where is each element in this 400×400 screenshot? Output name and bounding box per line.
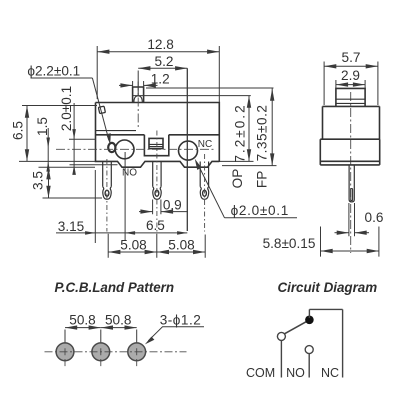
- left pin foot: [103, 187, 112, 200]
- pcb leader 3-phi1.2: [148, 327, 204, 341]
- left extension line y164.7: [70, 164, 118, 166]
- side view button: [336, 88, 365, 106]
- dim 12.8 line: [97, 51, 219, 53]
- COM terminal line: [280, 340, 282, 377]
- dim 5.2 extension line: [137, 71, 139, 96]
- dim 2.9 extension lines: [336, 80, 365, 88]
- pcb dim 50.8 right line: [101, 327, 137, 329]
- phi2.2 leader arrowhead: [106, 133, 111, 145]
- svg-text:2.0±0.1: 2.0±0.1: [59, 86, 74, 131]
- left circle center extension down: [124, 152, 126, 240]
- svg-text:5.08: 5.08: [168, 238, 194, 253]
- left pin centerline: [106, 159, 108, 232]
- front view body outline: [96, 103, 220, 168]
- middle pin foot: [153, 187, 162, 200]
- dim 3.5 extension line bottom: [43, 197, 103, 199]
- svg-text:3.5: 3.5: [30, 171, 45, 190]
- top-left hook tab: [98, 106, 105, 113]
- dim 2.0 lower arrow: [72, 165, 76, 175]
- svg-text:0.9: 0.9: [163, 198, 182, 213]
- dim 2.0 vertical line: [73, 103, 75, 172]
- button vertical centerline: [137, 82, 139, 130]
- phi2.0 label underline: [225, 217, 298, 219]
- chain dim line 3.15 / 6.5: [56, 232, 187, 234]
- side view base lines: [320, 161, 379, 165]
- dim 5.08 right line: [157, 251, 205, 253]
- phi2.2 leader line: [92, 78, 109, 140]
- svg-text:P.C.B.Land Pattern: P.C.B.Land Pattern: [55, 280, 175, 295]
- dim 0.6 left arrow: [335, 232, 349, 234]
- dim 0.6 extension lines: [349, 203, 355, 236]
- top wire: [309, 308, 342, 310]
- svg-text:50.8: 50.8: [69, 312, 95, 327]
- svg-text:0.6: 0.6: [365, 210, 384, 225]
- dim 5.2 line: [138, 67, 187, 69]
- left pin hole: [105, 190, 109, 196]
- dim 1.2 right arrow: [144, 84, 158, 86]
- svg-text:OP: OP: [230, 169, 245, 189]
- svg-text:5.2: 5.2: [155, 54, 174, 69]
- side view vertical centerline: [350, 92, 352, 253]
- FP top extension line: [146, 87, 274, 89]
- NC terminal line: [342, 309, 344, 377]
- dot to top wire: [308, 309, 310, 318]
- NO terminal circle: [305, 346, 313, 354]
- body seam line left: [96, 134, 145, 136]
- internal lever line: [96, 130, 137, 132]
- side view upper body: [323, 106, 380, 139]
- left extension line bottom (y161.4): [19, 160, 96, 162]
- body seam notch: [144, 135, 168, 156]
- dim 5.7 extension lines: [324, 62, 378, 106]
- dim 1.2 left arrow: [119, 84, 133, 86]
- body seam line right: [169, 134, 220, 136]
- long extension line right: [186, 68, 188, 231]
- left extension line y139.3: [69, 138, 96, 140]
- left pin: [103, 162, 112, 187]
- dim 3.5 vertical line: [48, 167, 50, 198]
- horizontal centerline through holes: [56, 148, 215, 150]
- middle pin centerline: [156, 131, 158, 233]
- 6.5 left arrow: [125, 231, 135, 235]
- svg-text:5.8±0.15: 5.8±0.15: [263, 236, 316, 251]
- dim 6.5 left vertical line: [26, 106, 28, 162]
- svg-text:6.5: 6.5: [146, 218, 165, 233]
- button dome arc: [134, 96, 142, 103]
- OP dim line: [248, 96, 250, 162]
- svg-text:1.5: 1.5: [35, 117, 50, 136]
- phi2.0 leader line: [198, 164, 225, 218]
- svg-text:NO: NO: [122, 167, 137, 178]
- dim 0.9 left arrow: [139, 211, 153, 213]
- pad circle 2: [92, 343, 110, 361]
- dim 12.8 extension lines: [97, 46, 219, 102]
- pad circle 3: [128, 343, 146, 361]
- left mounting circle: [115, 140, 134, 159]
- svg-text:COM: COM: [246, 366, 275, 380]
- FP dim line: [271, 89, 273, 166]
- svg-text:1.2: 1.2: [151, 72, 170, 87]
- middle pin hole: [155, 190, 159, 196]
- dim 1.5 lower arrow: [46, 161, 50, 171]
- side view lower body: [320, 139, 379, 165]
- svg-text:7.2±0.2: 7.2±0.2: [233, 103, 248, 162]
- dim 5.7 line: [324, 65, 378, 67]
- OP bottom reference line: [220, 160, 254, 162]
- pcb dim extension lines: [65, 330, 137, 343]
- button outer rectangle: [133, 87, 144, 103]
- side view button collar lines: [336, 99, 365, 103]
- 3.15 outside arrow: [85, 231, 95, 235]
- svg-text:12.8: 12.8: [147, 37, 173, 52]
- pcb pad circles: [56, 343, 145, 361]
- side view pin: [349, 165, 354, 202]
- right pin centerline: [204, 154, 206, 232]
- dim 1.2 extension lines: [133, 81, 144, 87]
- switch lever: [285, 322, 306, 334]
- pcb pad vertical ticks: [65, 348, 137, 366]
- side view step line: [320, 138, 379, 140]
- right pin hole: [203, 190, 207, 196]
- pcb dim 50.8 left line: [65, 327, 101, 329]
- dim 5.8 extension lines: [321, 227, 379, 257]
- dim 5.8 line: [321, 250, 379, 252]
- pad circle 1: [56, 343, 74, 361]
- svg-text:7.35±0.2: 7.35±0.2: [255, 105, 270, 162]
- dim 2.0 upper arrow: [72, 129, 76, 139]
- OP top extension line: [133, 95, 251, 97]
- side view pin slot: [351, 189, 353, 201]
- middle terminal slot divider: [149, 144, 163, 146]
- right pin: [200, 162, 208, 187]
- right pin foot: [200, 187, 209, 200]
- small hole ellipse (phi 2.2): [108, 143, 115, 152]
- 6.5 right arrow: [177, 231, 187, 235]
- svg-text:NC: NC: [321, 366, 339, 380]
- svg-text:5.7: 5.7: [342, 50, 361, 65]
- svg-text:NO: NO: [286, 366, 305, 380]
- right mounting circle: [179, 141, 198, 160]
- svg-text:FP: FP: [255, 171, 270, 188]
- middle terminal slot rectangle: [149, 138, 163, 148]
- dim 0.9 extension lines: [153, 200, 161, 215]
- middle pin: [153, 162, 161, 187]
- phi2.0 leader arrowhead: [195, 159, 202, 170]
- dim 0.9 right arrow: [161, 211, 188, 213]
- NO terminal line: [308, 354, 310, 378]
- dim 0.6 right arrow: [355, 232, 370, 234]
- svg-text:ϕ2.2±0.1: ϕ2.2±0.1: [27, 63, 80, 78]
- svg-text:3.15: 3.15: [58, 219, 84, 234]
- svg-text:5.08: 5.08: [120, 238, 146, 253]
- svg-text:50.8: 50.8: [105, 312, 131, 327]
- phi2.2 label underline: [31, 77, 93, 79]
- common contact dot: [305, 316, 314, 325]
- svg-text:ϕ2.0±0.1: ϕ2.0±0.1: [231, 203, 289, 218]
- dim 2.9 line: [336, 84, 365, 86]
- dim 5.08 left line: [108, 251, 157, 253]
- dim 1.5 vertical line: [47, 128, 49, 170]
- body left edge extension down: [94, 170, 96, 243]
- dim 5.08 extension lines: [108, 234, 205, 258]
- pcb leader arrowhead: [145, 337, 155, 345]
- dim 3.5 extension line top: [39, 166, 96, 168]
- COM terminal circle: [277, 332, 285, 340]
- pcb pads centerline horizontal: [45, 351, 187, 353]
- svg-text:NC: NC: [198, 139, 212, 150]
- left extension line top (y105.5): [22, 105, 97, 107]
- svg-text:Circuit Diagram: Circuit Diagram: [277, 280, 377, 295]
- svg-text:2.9: 2.9: [341, 68, 360, 83]
- dim 1.5 upper arrow: [46, 138, 50, 148]
- FP bottom reference line: [222, 165, 277, 167]
- svg-text:6.5: 6.5: [11, 121, 26, 140]
- svg-text:3-ϕ1.2: 3-ϕ1.2: [160, 313, 202, 328]
